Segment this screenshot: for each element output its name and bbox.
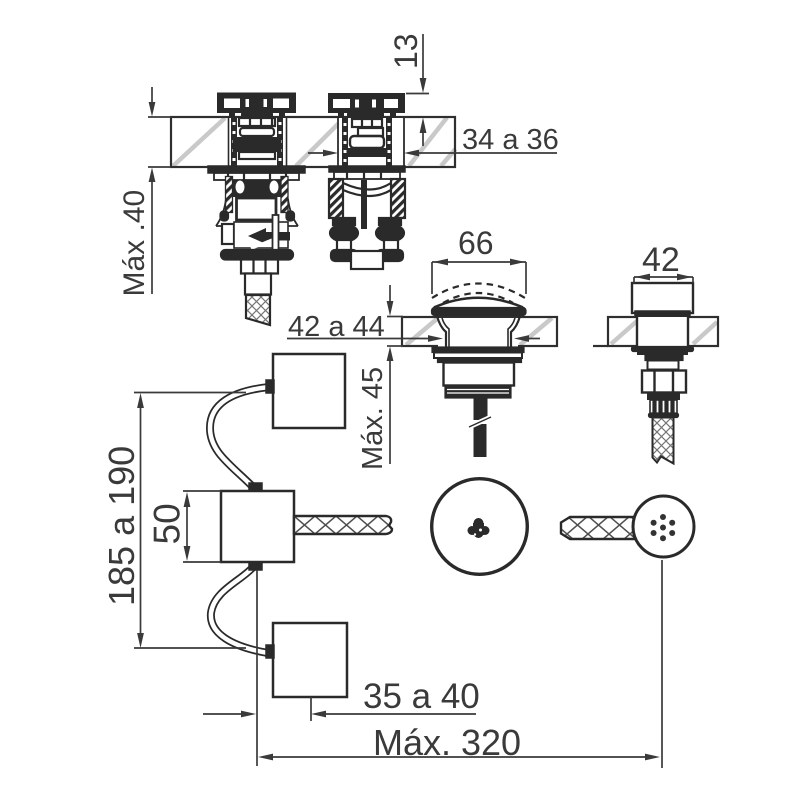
svg-text:42 a 44: 42 a 44 bbox=[288, 311, 385, 343]
svg-text:66: 66 bbox=[458, 225, 494, 261]
svg-text:34 a 36: 34 a 36 bbox=[462, 124, 559, 156]
svg-text:13: 13 bbox=[388, 33, 424, 69]
svg-text:42: 42 bbox=[642, 241, 680, 279]
svg-text:50: 50 bbox=[147, 503, 188, 544]
svg-text:Máx .40: Máx .40 bbox=[118, 190, 151, 297]
svg-text:Máx. 320: Máx. 320 bbox=[373, 722, 521, 763]
svg-text:35 a 40: 35 a 40 bbox=[363, 677, 480, 716]
svg-text:Máx. 45: Máx. 45 bbox=[357, 367, 389, 470]
svg-text:185 a 190: 185 a 190 bbox=[101, 446, 142, 606]
